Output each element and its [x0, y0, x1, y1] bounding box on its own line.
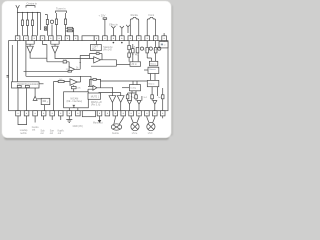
- svg-text:LS li: LS li: [148, 133, 153, 135]
- svg-text:Front: Front: [149, 14, 155, 17]
- svg-text:Stereo: Stereo: [149, 68, 156, 71]
- svg-text:Mono: Mono: [151, 64, 157, 66]
- svg-text:Effect in: Effect in: [109, 23, 118, 26]
- svg-text:Tuner in: Tuner in: [56, 7, 66, 11]
- svg-text:rechts: rechts: [20, 132, 27, 135]
- svg-text:(DE - Interface): (DE - Interface): [67, 100, 83, 103]
- svg-text:out: out: [58, 132, 62, 135]
- svg-text:Stand-by: Stand-by: [103, 46, 113, 49]
- svg-text:+ 20V: + 20V: [99, 13, 106, 17]
- svg-text:Centre: Centre: [32, 126, 40, 129]
- svg-text:ZF in: ZF in: [132, 64, 138, 66]
- svg-text:out: out: [50, 132, 54, 135]
- svg-text:Mono out: Mono out: [93, 121, 103, 124]
- svg-text:GND (0V): GND (0V): [73, 126, 83, 128]
- svg-text:Matrix: Matrix: [149, 82, 156, 85]
- svg-text:out: out: [41, 132, 45, 135]
- svg-text:out: out: [32, 129, 36, 132]
- svg-text:Centre in: Centre in: [27, 2, 38, 6]
- svg-text:FM/AM Demodulator: FM/AM Demodulator: [17, 83, 38, 86]
- svg-text:(Pin 5, 6): (Pin 5, 6): [91, 104, 101, 106]
- svg-text:Dolby: Dolby: [131, 87, 137, 89]
- svg-text:LS re: LS re: [132, 132, 138, 135]
- svg-text:NICAM: NICAM: [71, 97, 79, 100]
- svg-text:(Pin 14): (Pin 14): [103, 50, 111, 52]
- svg-text:Centre: Centre: [112, 132, 120, 135]
- svg-text:Surr: Surr: [50, 129, 55, 132]
- svg-text:Rückw.: Rückw.: [131, 14, 139, 17]
- svg-text:MUTE 1: MUTE 1: [91, 97, 100, 99]
